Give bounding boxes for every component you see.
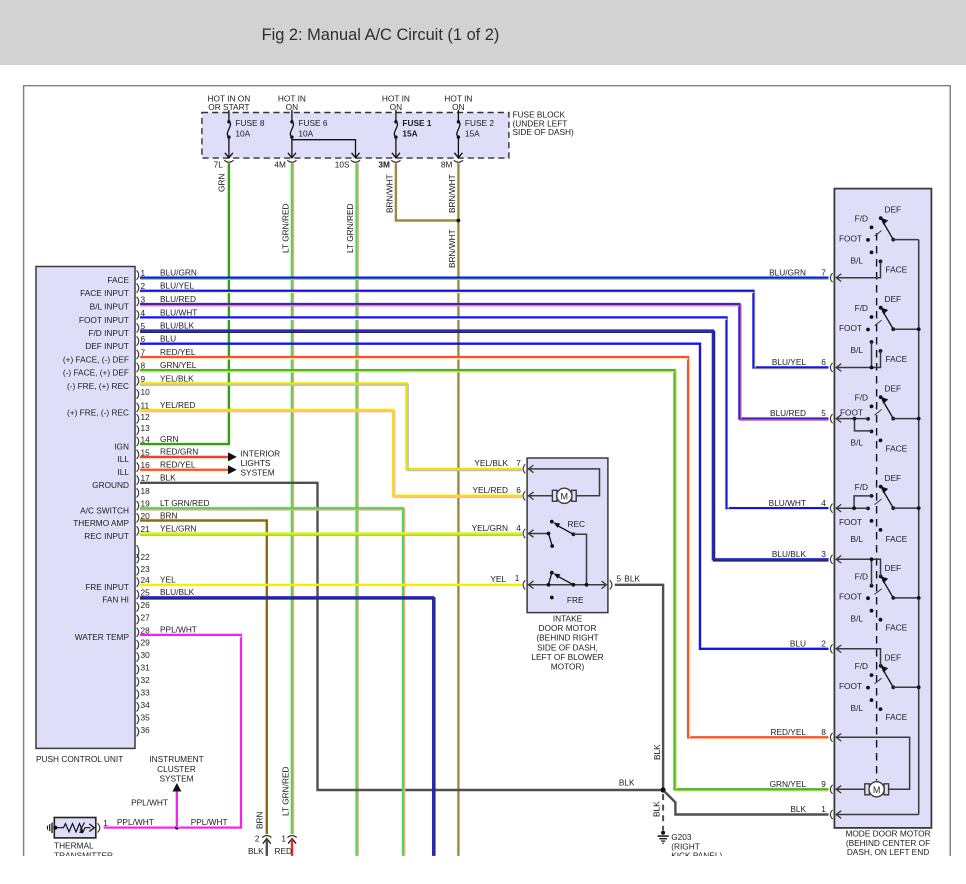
wire PPL/WHT pin28 water temp [104, 635, 243, 830]
wire RED/GRN pin15 to interior lights [140, 457, 228, 459]
svg-text:YEL/BLK: YEL/BLK [160, 373, 194, 383]
svg-text:LEFT OF BLOWER: LEFT OF BLOWER [531, 652, 603, 662]
mode pin 4 wire to contact and F/D [836, 496, 872, 512]
wire BLU/BLK pin5 to mode pin3 [140, 331, 829, 561]
wire YEL pin24 to intake pin1 [140, 584, 522, 586]
svg-text:B/L: B/L [851, 345, 864, 355]
svg-text:RED/YEL: RED/YEL [770, 727, 806, 737]
svg-text:6: 6 [821, 357, 826, 367]
wire GRN from 7L to pin 14 [140, 163, 229, 444]
hot-in label FUSE 2 [444, 93, 472, 112]
mode switch section 2 labels [839, 294, 908, 364]
intake pin 1 connector [490, 573, 525, 589]
svg-text:LT GRN/RED: LT GRN/RED [281, 204, 291, 253]
wire BLU/YEL pin2 to mode pin6 [140, 291, 829, 369]
svg-text:MOTOR): MOTOR) [551, 662, 585, 672]
svg-text:ILL: ILL [117, 454, 129, 464]
svg-text:BRN: BRN [255, 811, 265, 829]
svg-text:10: 10 [141, 387, 151, 397]
intake REC switch [549, 519, 586, 548]
svg-text:F/D: F/D [855, 572, 868, 582]
svg-text:10S: 10S [335, 160, 350, 170]
connector group mark [137, 545, 139, 558]
svg-text:FACE: FACE [886, 712, 908, 722]
mode pin 8 wire to motor [836, 734, 910, 790]
svg-text:DEF: DEF [885, 294, 902, 304]
mode door motor common bus [918, 240, 920, 815]
label LT GRN/RED (10S) [345, 204, 355, 253]
svg-text:35: 35 [141, 712, 151, 722]
pin 25 connector [102, 587, 194, 605]
svg-text:F/D: F/D [855, 303, 868, 313]
pin 29 connector [137, 638, 151, 650]
mode pin 1 connector [790, 804, 832, 819]
svg-text:THERMAL: THERMAL [54, 841, 94, 851]
svg-text:BLU/BLK: BLU/BLK [160, 587, 195, 597]
mode switch section 4 labels [839, 473, 908, 544]
mode switch section 3 contacts [866, 395, 883, 442]
connector 8M [441, 160, 463, 170]
inline connector 2 (BRN-BLK) [255, 834, 272, 844]
arrow to interior lights (pin 15) [228, 452, 237, 461]
svg-text:FUSE 6: FUSE 6 [298, 118, 327, 128]
pin 34 connector [137, 700, 151, 712]
svg-text:RED/GRN: RED/GRN [160, 447, 198, 457]
svg-text:ILL: ILL [117, 467, 129, 477]
svg-text:LT GRN/RED: LT GRN/RED [281, 767, 291, 816]
svg-text:BLU/BLK: BLU/BLK [772, 549, 807, 559]
svg-text:4: 4 [821, 498, 826, 508]
mode switch section 5 contacts [866, 575, 883, 622]
pin 18 connector [137, 486, 151, 498]
svg-text:YEL/BLK: YEL/BLK [474, 458, 508, 468]
svg-text:F/D: F/D [855, 392, 868, 402]
mode pin 5 connector [770, 408, 833, 423]
svg-text:10A: 10A [298, 129, 313, 139]
mode pin 3 connector [772, 549, 833, 564]
svg-text:15A: 15A [402, 129, 417, 139]
svg-text:RED/YEL: RED/YEL [160, 347, 196, 357]
svg-text:B/L: B/L [851, 438, 864, 448]
wire LT GRN/RED from 4M to connector [292, 163, 294, 834]
hot-in label FUSE 1 [382, 93, 410, 112]
svg-text:DEF: DEF [885, 563, 902, 573]
svg-text:5: 5 [617, 574, 622, 584]
wire BLK intake to ground junction [615, 585, 663, 790]
fuse FUSE 6 10A [288, 110, 328, 158]
svg-text:BLK: BLK [619, 777, 635, 787]
fuse block label [513, 110, 575, 138]
svg-text:BLU: BLU [160, 334, 176, 344]
svg-text:LT GRN/RED: LT GRN/RED [160, 498, 209, 508]
mode switch section 1 common link [893, 239, 918, 241]
interior lights system label [241, 449, 281, 478]
svg-text:36: 36 [141, 725, 151, 735]
wire BLU/WHT pin4 to mode pin4 [140, 318, 829, 510]
svg-text:31: 31 [141, 663, 151, 673]
svg-text:14: 14 [141, 435, 151, 445]
svg-text:BLU/WHT: BLU/WHT [769, 498, 806, 508]
svg-text:B/L INPUT: B/L INPUT [90, 301, 129, 311]
svg-text:FUSE 2: FUSE 2 [465, 118, 494, 128]
svg-text:FACE INPUT: FACE INPUT [80, 288, 129, 298]
svg-text:7: 7 [516, 458, 521, 468]
pin 21 connector [84, 523, 196, 541]
pin 19 connector [80, 498, 209, 515]
wire RED/YEL pin16 to interior lights [140, 470, 228, 472]
svg-text:BLK: BLK [248, 846, 264, 856]
mode pin 1 wire to common bus [836, 811, 919, 819]
svg-text:GRN/YEL: GRN/YEL [160, 360, 197, 370]
thermal transmitter label [54, 841, 113, 861]
svg-text:FOOT: FOOT [840, 407, 863, 417]
mode switch section 4 common link [893, 506, 920, 510]
mode pin 6 connector [772, 357, 833, 372]
svg-text:SIDE OF DASH,: SIDE OF DASH, [537, 642, 598, 652]
svg-text:27: 27 [141, 613, 151, 623]
svg-text:FUSE 1: FUSE 1 [402, 118, 431, 128]
svg-text:FACE: FACE [886, 354, 908, 364]
svg-text:30: 30 [141, 650, 151, 660]
pin 16 connector [117, 460, 195, 478]
hot-in label FUSE 8 [208, 93, 251, 112]
intake door motor (box) [527, 458, 608, 613]
label LT GRN/RED (4M lower) [281, 767, 291, 816]
mode pin 6 wire to B/L and FACE contacts [836, 342, 881, 371]
svg-text:15A: 15A [465, 129, 480, 139]
wire GRN/YEL pin8 to mode pin9 [140, 370, 829, 791]
mode door motor (box) [834, 189, 931, 828]
pin 5 connector [88, 320, 194, 338]
pin 36 connector [137, 725, 151, 737]
mode switch section 6 common link [893, 685, 920, 689]
svg-text:BLK: BLK [624, 574, 640, 584]
svg-text:7L: 7L [214, 160, 224, 170]
svg-text:BLU/WHT: BLU/WHT [160, 307, 197, 317]
mode pin 5 wire to FOOT and B/L contacts [836, 415, 872, 431]
mode pin 3 wire to DEF and F/D contacts [836, 556, 881, 586]
label BRN/WHT (3M) [385, 174, 395, 213]
mode pin 9 wire to motor [836, 786, 865, 794]
intake pin 4 wire [528, 530, 550, 538]
svg-text:8M: 8M [441, 160, 453, 170]
pin 22 connector [137, 552, 151, 564]
junction BRN/WHT [457, 219, 461, 223]
svg-text:1: 1 [821, 804, 826, 814]
svg-text:6: 6 [516, 485, 521, 495]
pin 9 connector [67, 373, 194, 391]
mode switch section 5 common link [893, 596, 920, 600]
svg-text:GRN: GRN [217, 174, 227, 192]
svg-text:CLUSTER: CLUSTER [157, 764, 196, 774]
svg-text:IGN: IGN [114, 441, 129, 451]
thermal transmitter case ground [48, 823, 53, 834]
pin 15 connector [117, 447, 198, 465]
svg-text:DEF: DEF [885, 652, 902, 662]
svg-text:4M: 4M [274, 160, 286, 170]
svg-text:YEL/GRN: YEL/GRN [160, 523, 196, 533]
title bar [0, 0, 966, 65]
mode switch section 1 labels [839, 205, 908, 275]
label PPL/WHT (right run) [191, 817, 228, 827]
pin 12 connector [137, 412, 151, 424]
svg-text:(BEHIND RIGHT: (BEHIND RIGHT [536, 633, 598, 643]
svg-text:PUSH CONTROL UNIT: PUSH CONTROL UNIT [36, 754, 123, 764]
wire LT GRN/RED from 10S [357, 163, 359, 856]
svg-text:FACE: FACE [886, 443, 908, 453]
svg-text:BLU/YEL: BLU/YEL [772, 357, 807, 367]
svg-text:YEL/GRN: YEL/GRN [472, 523, 508, 533]
svg-text:DEF: DEF [885, 384, 902, 394]
label BRN/WHT (below junction) [447, 229, 457, 268]
thermal transmitter resistor element [53, 823, 94, 834]
intake pin 7 wire to motor [528, 465, 600, 496]
svg-text:BLU/GRN: BLU/GRN [769, 267, 806, 277]
svg-text:BRN/WHT: BRN/WHT [447, 174, 457, 213]
svg-text:FRE INPUT: FRE INPUT [85, 582, 129, 592]
svg-text:FACE: FACE [886, 264, 908, 274]
connector 7L [214, 160, 234, 170]
mode door motor M [865, 782, 889, 797]
svg-text:LIGHTS: LIGHTS [241, 458, 271, 468]
svg-text:B/L: B/L [851, 703, 864, 713]
connector 3M [378, 160, 400, 170]
svg-text:M: M [561, 491, 569, 501]
instrument cluster system label [149, 754, 203, 784]
label BLK (ground run) [619, 777, 635, 787]
svg-text:1: 1 [281, 834, 286, 844]
svg-text:(-) FRE, (+) REC: (-) FRE, (+) REC [67, 381, 129, 391]
wire BLU pin6 to mode pin2 [140, 344, 829, 649]
svg-text:FOOT: FOOT [839, 592, 862, 602]
svg-text:BLU/YEL: BLU/YEL [160, 281, 195, 291]
svg-text:YEL/RED: YEL/RED [160, 400, 196, 410]
wire YEL/BLK pin9 to intake pin7 [140, 384, 522, 471]
svg-text:FOOT: FOOT [839, 323, 862, 333]
pin 13 connector [137, 423, 151, 435]
svg-text:32: 32 [141, 675, 151, 685]
svg-text:BLK: BLK [652, 744, 662, 760]
mode switch section 4 arm [875, 486, 896, 510]
svg-text:3: 3 [821, 549, 826, 559]
pin 4 connector [79, 307, 197, 325]
pin 24 connector [85, 575, 176, 593]
pin 7 connector [63, 347, 196, 365]
svg-text:GRN: GRN [160, 434, 178, 444]
svg-text:2: 2 [821, 638, 826, 648]
mode switch section 1 contacts [866, 216, 883, 263]
mode switch section 1 arm [875, 218, 896, 242]
inline connector 1 (LT GRN/RED-RED) [281, 834, 296, 844]
fuse 6 to 10S branch wire [292, 140, 360, 158]
intake pin 6 wire to motor [528, 492, 552, 500]
label RED (below connector 1) [275, 846, 293, 856]
pin 20 connector [73, 510, 177, 528]
mode switch section 4 contacts [866, 485, 883, 532]
label PPL/WHT (left run) [117, 817, 154, 827]
svg-text:RED: RED [275, 846, 293, 856]
svg-text:BRN: BRN [160, 510, 178, 520]
svg-text:BLU/RED: BLU/RED [770, 408, 806, 418]
svg-text:GROUND: GROUND [92, 480, 129, 490]
svg-text:BLU/RED: BLU/RED [160, 294, 196, 304]
mode pin 8 connector [770, 727, 832, 742]
svg-text:THERMO AMP: THERMO AMP [73, 518, 129, 528]
svg-text:PPL/WHT: PPL/WHT [160, 625, 197, 635]
push control unit U1 (box) [36, 267, 135, 749]
svg-text:F/D: F/D [855, 213, 868, 223]
fuse FUSE 8 10A [225, 110, 265, 158]
svg-text:BLK: BLK [790, 804, 806, 814]
svg-text:(+) FACE, (-) DEF: (+) FACE, (-) DEF [63, 354, 129, 364]
mode pin 7 wire to FACE contact [836, 261, 881, 281]
ground G203 [658, 831, 669, 844]
svg-text:8: 8 [821, 727, 826, 737]
mode switch section 5 arm [875, 576, 896, 600]
svg-text:BLK: BLK [652, 801, 662, 817]
svg-text:DASH, ON LEFT END: DASH, ON LEFT END [847, 847, 929, 857]
svg-text:LT GRN/RED: LT GRN/RED [345, 204, 355, 253]
svg-text:DEF INPUT: DEF INPUT [85, 341, 129, 351]
svg-text:FRE: FRE [567, 595, 584, 605]
wire RED below connector 1 [291, 839, 293, 856]
svg-text:22: 22 [141, 552, 151, 562]
push control unit label [36, 754, 123, 764]
svg-text:26: 26 [141, 600, 151, 610]
label PPL/WHT (riser) [131, 798, 168, 808]
svg-text:B/L: B/L [851, 614, 864, 624]
wire BLK pin17 ground run [140, 483, 663, 790]
intake pin 6 connector [472, 485, 525, 500]
wire BRN/WHT from 3M [396, 163, 459, 220]
label BRN/WHT (8M) [447, 174, 457, 213]
mode switch section 2 common link [893, 327, 920, 331]
svg-text:33: 33 [141, 688, 151, 698]
pin 6 connector [85, 334, 176, 352]
intake pin 7 connector [474, 458, 525, 473]
mode switch section 2 arm [875, 307, 896, 331]
svg-text:GRN/YEL: GRN/YEL [770, 779, 807, 789]
pin 28 connector [75, 625, 197, 643]
svg-text:FAN HI: FAN HI [102, 595, 129, 605]
svg-text:29: 29 [141, 638, 151, 648]
intake door motor label [531, 614, 603, 672]
svg-text:DOOR MOTOR: DOOR MOTOR [539, 623, 597, 633]
svg-text:9: 9 [821, 779, 826, 789]
pin 2 connector [80, 281, 194, 299]
svg-text:PPL/WHT: PPL/WHT [117, 817, 154, 827]
svg-text:BLU: BLU [790, 638, 806, 648]
svg-text:FOOT: FOOT [839, 681, 862, 691]
wire RED/YEL pin7 to mode pin8 [140, 357, 829, 739]
svg-text:INSTRUMENT: INSTRUMENT [149, 754, 203, 764]
svg-text:1: 1 [103, 818, 108, 828]
wire BRN pin20 thermo amp [140, 521, 267, 835]
ground G203 label [671, 832, 722, 861]
svg-text:FACE: FACE [886, 534, 908, 544]
wire BRN/WHT from 8M [457, 163, 459, 856]
mode switch section 6 arm [875, 665, 896, 689]
svg-text:YEL: YEL [490, 574, 506, 584]
svg-text:23: 23 [141, 564, 151, 574]
svg-text:WATER TEMP: WATER TEMP [75, 632, 130, 642]
svg-text:FACE: FACE [107, 275, 129, 285]
pin 23 connector [137, 564, 151, 576]
svg-text:F/D INPUT: F/D INPUT [88, 328, 129, 338]
intake FRE switch [549, 571, 584, 605]
svg-text:18: 18 [141, 486, 151, 496]
label LT GRN/RED (4M) [281, 204, 291, 253]
wire BLU/RED pin3 to mode pin5 [140, 304, 829, 420]
wire BLK dashed to G203 [662, 794, 664, 831]
svg-text:BLU/GRN: BLU/GRN [160, 268, 197, 278]
intake motor M [552, 488, 576, 503]
arrow to instrument cluster system [172, 783, 181, 792]
pin 10 connector [137, 387, 151, 399]
wire BLU/BLK pin25 fan hi [140, 597, 435, 856]
label BRN (vertical) [255, 811, 265, 829]
mode switch section 3 labels [840, 384, 908, 454]
svg-text:REC: REC [568, 519, 586, 529]
label BLK (ground stub) [652, 801, 662, 817]
svg-text:F/D: F/D [855, 661, 868, 671]
mode switch section 6 labels [839, 652, 908, 722]
svg-text:(-) FACE, (+) DEF: (-) FACE, (+) DEF [63, 368, 129, 378]
svg-text:FOOT: FOOT [839, 233, 862, 243]
svg-text:10A: 10A [235, 129, 250, 139]
connector 4M [274, 160, 296, 170]
thermal transmitter (box) [54, 818, 96, 838]
wire YEL/GRN pin21 to intake pin4 [140, 534, 522, 536]
svg-text:7: 7 [821, 267, 826, 277]
wire LT GRN/RED pin19 A/C switch [140, 508, 405, 856]
fuse FUSE 2 15A [454, 110, 494, 158]
fuse FUSE 1 15A [392, 110, 432, 158]
svg-text:13: 13 [141, 423, 151, 433]
svg-text:BLU/BLK: BLU/BLK [160, 320, 195, 330]
pin 1 connector [107, 268, 197, 286]
label GRN [217, 174, 227, 192]
mode switch section 6 contacts [866, 664, 883, 711]
label BLK (intake down run) [652, 744, 662, 760]
pin 30 connector [137, 650, 151, 662]
svg-text:(+) FRE, (-) REC: (+) FRE, (-) REC [67, 407, 129, 417]
mode pin 4 connector [769, 498, 833, 513]
hot-in label FUSE 6 [278, 93, 306, 112]
mode switch section 5 labels [839, 563, 908, 633]
svg-text:5: 5 [821, 408, 826, 418]
svg-text:RED/YEL: RED/YEL [160, 460, 196, 470]
svg-text:12: 12 [141, 412, 151, 422]
svg-text:BRN/WHT: BRN/WHT [385, 174, 395, 213]
svg-text:BLK: BLK [160, 473, 176, 483]
intake REC switch common wire [573, 534, 586, 585]
arrow to interior lights (pin 16) [228, 465, 237, 474]
pin 14 connector [114, 434, 178, 452]
mode pin 7 connector [769, 267, 832, 282]
pin 26 connector [137, 600, 151, 612]
svg-text:B/L: B/L [851, 255, 864, 265]
svg-text:YEL/RED: YEL/RED [472, 485, 508, 495]
fuse block (box) [202, 113, 509, 159]
mode switch section 2 contacts [866, 306, 883, 353]
svg-text:FACE: FACE [886, 623, 908, 633]
svg-text:M: M [873, 785, 881, 795]
thermal transmitter pin 1 connector [98, 818, 109, 833]
svg-text:PPL/WHT: PPL/WHT [191, 817, 228, 827]
pin 17 connector [92, 473, 176, 491]
pin 31 connector [137, 663, 151, 675]
